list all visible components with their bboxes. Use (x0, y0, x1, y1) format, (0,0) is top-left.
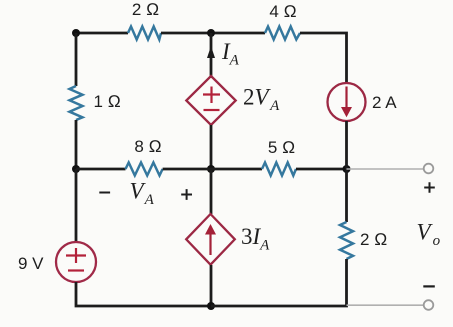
junction top-left (72, 29, 80, 37)
variable label Vo (417, 220, 441, 250)
wire middle row center (8ohm to node C) (163, 168, 262, 171)
value label 2VA (243, 85, 280, 115)
wire output top (node D to terminal) (347, 168, 424, 170)
value label 2 A (372, 93, 397, 112)
wire top segment right (4ohm to top-right corner) (300, 33, 347, 83)
junction node C (center) (207, 165, 215, 173)
wire middle vertical top (node A down, with IA arrow) (210, 33, 213, 78)
svg-text:8 Ω: 8 Ω (134, 137, 161, 156)
value label 2 ohm right (360, 230, 387, 249)
polarity minus (VA) (99, 192, 110, 194)
svg-text:9 V: 9 V (18, 254, 44, 273)
resistor 2ohm top-left (128, 27, 161, 40)
wire top segment middle (2ohm to node A) (161, 32, 265, 35)
resistor 2ohm right (340, 222, 353, 259)
polarity plus (VA) (181, 189, 192, 200)
value label 1 ohm (94, 92, 121, 111)
svg-text:2 Ω: 2 Ω (132, 0, 159, 19)
current source 2A (328, 83, 366, 121)
svg-text:1 Ω: 1 Ω (94, 92, 121, 111)
svg-text:4 Ω: 4 Ω (269, 2, 296, 21)
value label 5 ohm (268, 138, 295, 157)
svg-text:5 Ω: 5 Ω (268, 138, 295, 157)
resistor 5ohm (262, 163, 296, 176)
terminal output top (424, 164, 434, 174)
wire middle vertical bottom (3IA to bottom node) (210, 265, 213, 306)
resistor 1ohm left (70, 86, 83, 120)
terminal output bottom (424, 300, 434, 310)
junction node A (top middle) (207, 29, 215, 37)
svg-text:2 A: 2 A (372, 93, 397, 112)
wire top segment left (node top-left to 2ohm resistor) (76, 32, 128, 35)
wire left upper (top-left corner to 1ohm) (75, 33, 78, 86)
current arrow IA (207, 46, 215, 58)
wire middle vertical (2VA to node C) (210, 125, 213, 169)
wire left lower (node B to 9V source) (75, 169, 78, 242)
dependent voltage source 2VA (186, 76, 235, 125)
wire right (node D to 2ohm) (345, 169, 348, 222)
wire middle row right (5ohm to node D) (296, 168, 347, 171)
junction node B (left middle) (72, 165, 80, 173)
wire left middle (1ohm to node B) (75, 120, 78, 169)
wire middle vertical (node C to 3IA source) (210, 169, 213, 214)
polarity minus (Vo) (423, 285, 435, 287)
junction bottom middle (207, 302, 215, 310)
dependent current source 3IA (186, 214, 235, 265)
wire output bottom (bottom-right corner to terminal) (347, 304, 424, 306)
value label 4 ohm (269, 2, 296, 21)
resistor 4ohm top-right (265, 27, 300, 40)
junction node D (right middle) (343, 165, 351, 173)
variable label VA (130, 179, 155, 209)
value label 8 ohm (134, 137, 161, 156)
svg-text:2 Ω: 2 Ω (360, 230, 387, 249)
wire right (2A source to node D) (345, 121, 348, 169)
wire middle row left (node B to 8ohm) (76, 168, 126, 171)
voltage source 9V (56, 242, 96, 282)
resistor 8ohm (126, 163, 163, 176)
wire bottom-left (9V to bottom wire) (76, 282, 211, 306)
value label 9 V (18, 254, 44, 273)
variable label IA (221, 39, 240, 69)
value label 2 ohm top (132, 0, 159, 19)
polarity plus (Vo) (424, 182, 435, 193)
value label 3IA (241, 224, 270, 254)
wire right bottom (2ohm to bottom wire) (211, 259, 347, 306)
